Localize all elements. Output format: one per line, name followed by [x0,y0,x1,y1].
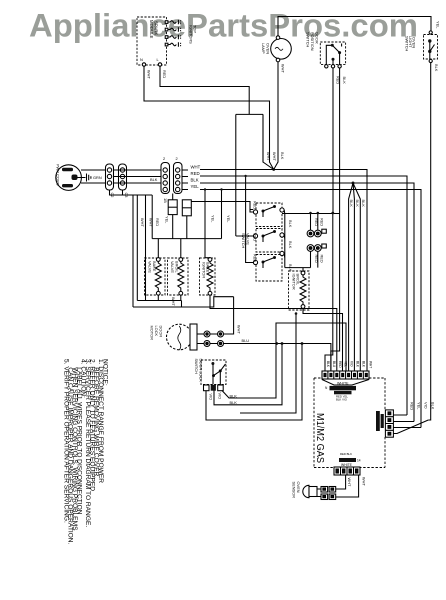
motor connectors [197,331,224,347]
svg-text:VIO: VIO [350,361,354,367]
svg-text:2: 2 [163,156,165,161]
svg-text:WHT: WHT [362,477,367,486]
svg-text:RED: RED [253,233,258,241]
wire w398 from door lock switch [222,323,346,398]
svg-text:WHITE: WHITE [337,381,349,385]
svg-text:BLK VIO: BLK VIO [336,398,348,402]
wire from F2 top to valve switch 1 [191,202,253,213]
board right 4-pin connector [385,410,393,437]
wire YEL drop to H1 [221,190,223,239]
svg-text:WHT: WHT [272,152,277,161]
svg-text:BLK: BLK [361,200,366,208]
svg-text:RED: RED [253,201,258,209]
connector A (3-pin) [106,164,114,190]
wire valve switch outputs right [283,210,286,268]
svg-text:RED: RED [320,255,325,263]
svg-text:WHT: WHT [147,70,152,79]
broil ignitor R2 [289,271,310,310]
svg-text:RED: RED [191,171,200,176]
svg-text:VALVE: VALVE [170,261,175,273]
oven sensor RT1 [303,485,317,497]
wire RED bus to valve switch unit3 [246,176,254,263]
svg-text:WHT: WHT [266,152,271,161]
svg-text:WHT: WHT [347,478,352,487]
board bottom 4-pin connector [334,467,360,475]
svg-text:WHT: WHT [369,361,373,368]
svg-text:YEL: YEL [417,402,422,410]
TOP IGNITORS label [189,25,198,44]
door lock switch S4 [201,360,226,391]
notice text block [62,359,108,545]
svg-text:BLK: BLK [288,241,293,249]
spark module label [149,20,159,39]
svg-text:BLK: BLK [150,177,158,182]
oven lamp DS1 [271,16,292,163]
svg-text:BLU: BLU [332,361,336,368]
BLK fan node [349,182,361,372]
WHITE flag under strip [322,380,369,386]
svg-text:SWITCH: SWITCH [405,36,410,52]
board connector label block [376,411,384,431]
bake ignitor return to board pin3 [210,295,337,371]
svg-text:RED: RED [253,254,258,262]
valve switch S3 unit2 [253,229,284,253]
svg-text:YEL: YEL [344,361,348,367]
svg-text:2: 2 [176,156,178,161]
svg-text:YEL: YEL [436,21,441,29]
svg-text:M1/M2 GAS: M1/M2 GAS [314,413,326,463]
svg-text:WHT: WHT [281,64,286,73]
wires between connectors [114,170,162,183]
valve switch S3 unit1 [253,203,284,227]
wire w413 [240,314,296,414]
oven light switch S2 [424,31,438,63]
door position switch S1 [320,42,345,68]
spark module U1 dashed box [137,17,167,65]
svg-text:BLK: BLK [349,200,354,208]
door lock motor M1 [167,324,198,350]
svg-text:1B: 1B [163,198,168,203]
svg-text:BLK: BLK [288,220,293,228]
wire BLK from door position switch down to board pin2 [331,68,340,371]
svg-text:SWITCH: SWITCH [306,32,311,48]
bus labels [191,164,201,189]
svg-text:YEL: YEL [164,216,169,224]
svg-text:RED: RED [314,218,319,226]
svg-text:WHT: WHT [237,325,242,334]
wire from power cord to connector A [81,170,106,183]
valve switch S3 unit3 [253,251,284,281]
label BLU [242,338,250,343]
connector D (4-pin) [174,163,183,194]
sensor connector [317,487,336,500]
svg-text:VIO: VIO [209,394,214,401]
wire to broil ignitor [285,268,311,271]
ground symbol [78,174,91,182]
svg-text:N: N [140,57,143,62]
svg-text:BLK: BLK [434,64,439,72]
svg-text:RED: RED [314,255,319,263]
svg-text:BLK: BLK [342,77,347,85]
svg-text:YEL: YEL [226,215,231,223]
top ignitor spark gaps [168,20,181,47]
broil ignitor return to board pin4 [303,308,343,371]
right wire labels [410,402,436,410]
svg-text:WHT: WHT [148,218,153,227]
svg-text:MODULE: MODULE [149,20,154,39]
broil valve L2 [168,258,189,296]
svg-text:WHITE: WHITE [341,463,353,467]
fuse box F1 [168,194,177,239]
svg-text:RED: RED [338,361,342,368]
svg-text:BLK: BLK [355,200,360,208]
spark module pins [165,21,168,46]
connector RED/RED lower [307,244,326,268]
M1/M2 GAS board dashed box [314,378,385,468]
svg-text:IGNITOR: IGNITOR [291,274,296,290]
right connector pin4 diagonal wire [393,420,428,434]
svg-text:WHT: WHT [140,218,145,227]
bus WHT [182,170,367,372]
svg-text:BLK: BLK [431,402,436,410]
wire WHT to motor [224,297,234,334]
svg-text:BLK: BLK [361,361,365,368]
wire w420 [206,344,302,421]
bus RED [182,176,407,415]
svg-text:RED: RED [410,402,415,410]
svg-text:RED BLK: RED BLK [340,452,352,456]
svg-text:MOTOR: MOTOR [150,326,155,341]
svg-text:5. VERIFY PROPER OPERATION AFT: 5. VERIFY PROPER OPERATION AFTER SERVICI… [62,359,69,523]
svg-text:IGNITOR: IGNITOR [201,262,206,278]
junction dots on BLU wire [275,342,278,345]
svg-text:BLK: BLK [280,152,285,160]
wire BLK from oven light switch to right connector pin4 [428,63,430,420]
top bus wire y16 [278,17,431,31]
svg-text:VALVE: VALVE [148,261,153,273]
wire YEL bus to bake ignitor top [204,190,206,258]
svg-text:PWR CORD: PWR CORD [56,164,61,186]
wires down from power connectors [110,191,153,196]
wire RED from spark module L [160,66,263,236]
wires from bottom connector to sensor [336,475,359,497]
svg-text:YEL: YEL [191,184,200,189]
wire to valve switch unit2 [236,235,254,237]
wire BLU from motor to board pin2 [224,344,331,372]
bus BLK [182,183,414,422]
valve bottom bus [133,295,234,307]
connector C (4-pin) [161,163,170,194]
svg-text:LAMP: LAMP [261,43,266,54]
svg-text:YEL: YEL [211,215,216,223]
board 8-pin connector strip [322,371,369,379]
bake ignitor R1 [200,258,216,296]
svg-text:GRN: GRN [93,175,102,180]
svg-text:14: 14 [357,459,361,463]
wire unit1 to node [282,213,340,215]
bus YEL [182,190,421,428]
bake valve L1 [145,258,166,296]
svg-text:RED: RED [155,218,160,226]
wire WHT from spark module N [144,66,270,162]
svg-text:BLK: BLK [191,178,199,183]
svg-text:SENSOR: SENSOR [292,482,297,499]
svg-text:AppliancePartsPros.com: AppliancePartsPros.com [29,8,418,44]
svg-text:BLK: BLK [356,361,360,368]
bus H1 to valve tops [152,239,221,258]
strip pin labels [326,361,373,368]
svg-text:WHT: WHT [171,297,176,306]
svg-text:RED: RED [320,218,325,226]
power cord P0 [56,165,82,191]
board black bars [325,386,356,402]
wire w405 [214,344,282,405]
wire RED from door position switch down to board pin1 [325,68,333,371]
svg-text:VIO: VIO [218,393,223,400]
svg-text:WHT: WHT [191,164,201,169]
fuse box F2 [182,200,191,239]
connector RED/RED upper [307,212,326,237]
svg-text:SWITCH: SWITCH [194,359,199,375]
svg-text:IGNITORS: IGNITORS [189,25,194,44]
connector B (3-pin) [119,164,127,190]
svg-text:RED: RED [162,70,167,78]
svg-text:VIO: VIO [424,402,429,409]
svg-text:BLK: BLK [326,361,330,368]
svg-text:BLU: BLU [242,338,250,343]
spark module N and L pins [142,63,161,66]
svg-text:BLK: BLK [230,400,238,405]
node junction chevron merge [263,114,278,171]
